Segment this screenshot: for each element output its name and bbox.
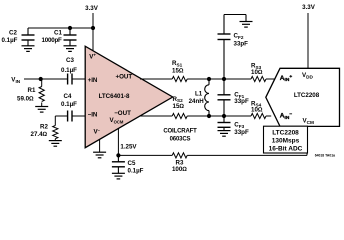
svg-text:C3: C3 (66, 57, 74, 64)
svg-text:3.3V: 3.3V (302, 4, 316, 11)
wire: VOCM pin down (117, 128, 119, 155)
svg-text:LTC6401-8: LTC6401-8 (99, 93, 130, 100)
svg-text:C4: C4 (64, 93, 72, 100)
svg-text:3.3V: 3.3V (85, 5, 99, 12)
svg-text:27.4Ω: 27.4Ω (31, 131, 48, 138)
ground under CF3 (218, 131, 231, 137)
svg-text:LTC2208: LTC2208 (272, 129, 299, 136)
svg-text:0.1µF: 0.1µF (61, 67, 77, 74)
ground under R2 (49, 141, 62, 147)
node: input junction (39, 77, 43, 81)
wire: V+ pin (92, 28, 94, 52)
wire: top supply rail (28, 27, 93, 29)
ground under R1 (35, 107, 48, 113)
capacitor C1 (64, 28, 77, 46)
svg-text:R2: R2 (40, 123, 48, 130)
svg-text:33pF: 33pF (234, 98, 249, 105)
svg-text:15Ω: 15Ω (173, 103, 185, 110)
resistor R1 (41, 79, 43, 87)
node: CF column top junction (222, 77, 226, 81)
node: VOCM/C5/R3 junction (116, 153, 120, 157)
svg-text:33pF: 33pF (234, 41, 249, 48)
resistor RS1 (172, 76, 187, 81)
svg-text:1.25V: 1.25V (120, 144, 137, 151)
wire: RS3 to AIN+ (266, 78, 275, 80)
svg-text:+OUT: +OUT (116, 74, 133, 81)
wire: RS4 to AIN- (266, 115, 271, 117)
svg-text:100Ω: 100Ω (172, 166, 187, 173)
svg-text:0.1µF: 0.1µF (61, 101, 77, 108)
resistor RS4 (251, 113, 266, 118)
svg-text:COILCRAFT: COILCRAFT (163, 129, 197, 135)
wire: 3.3V lead down to rail (92, 13, 94, 28)
resistor R2 (54, 116, 56, 126)
resistor RS2 (172, 113, 187, 118)
wire: +OUT to RS1 (140, 78, 172, 80)
resistor RS3 (251, 76, 266, 81)
capacitor CF3 (218, 116, 231, 131)
resistor R3 (172, 153, 187, 158)
capacitor C2 (22, 28, 35, 46)
svg-text:15Ω: 15Ω (172, 67, 184, 74)
node: L1 top junction (207, 77, 211, 81)
svg-text:R1: R1 (28, 87, 36, 94)
svg-text:0603CS: 0603CS (170, 137, 191, 143)
ground at V- (93, 152, 106, 158)
svg-text:24nH: 24nH (189, 98, 205, 105)
svg-text:−OUT: −OUT (114, 110, 131, 117)
svg-text:16-Bit ADC: 16-Bit ADC (269, 145, 303, 152)
capacitor C4 (68, 111, 72, 122)
svg-text:59.0Ω: 59.0Ω (17, 95, 34, 102)
capacitor CF1 (218, 79, 231, 116)
svg-text:C5: C5 (128, 160, 136, 167)
inductor L1 (205, 79, 209, 116)
wire: R3 to 1.25V node (118, 154, 172, 156)
svg-text:+IN: +IN (88, 77, 98, 84)
svg-text:−IN: −IN (88, 111, 98, 118)
ground under C5 (112, 173, 125, 179)
wire: VIN to C3 (24, 78, 68, 80)
wire: VCM pin down (306, 127, 308, 156)
ADC caption box (264, 126, 308, 153)
svg-text:10Ω: 10Ω (251, 107, 263, 114)
node: junction at V+ drop (91, 26, 95, 30)
ground under C1 (64, 46, 77, 52)
ground under C2 (22, 46, 35, 52)
svg-text:1000pF: 1000pF (42, 37, 63, 44)
capacitor C5 (112, 155, 125, 173)
svg-text:64018 TA01a: 64018 TA01a (315, 154, 335, 158)
op-amp U1 LTC6401-8 (85, 46, 173, 148)
wire: C3 to +IN (72, 78, 85, 80)
svg-text:C1: C1 (54, 30, 62, 37)
wire: RS1 to RS3 (187, 78, 251, 80)
node: CF column bottom junction (222, 114, 226, 118)
node: L1 bottom junction (207, 114, 211, 118)
svg-text:0.1µF: 0.1µF (128, 167, 144, 174)
wire: VDD lead (307, 13, 309, 68)
svg-text:33pF: 33pF (234, 129, 249, 136)
svg-text:L1: L1 (195, 90, 203, 97)
svg-text:LTC2208: LTC2208 (294, 92, 320, 99)
svg-text:0.1µF: 0.1µF (2, 37, 18, 44)
wire: -OUT to RS2 (139, 115, 172, 117)
wire: RS2 to RS4 (187, 115, 251, 117)
capacitor C3 (68, 74, 72, 85)
ground at CF2 (240, 22, 253, 28)
wire: V- pin to ground (99, 139, 101, 152)
svg-text:10Ω: 10Ω (251, 69, 263, 76)
svg-text:C2: C2 (9, 30, 17, 37)
ADC U2 LTC2208 (266, 68, 340, 126)
capacitor CF2 (218, 15, 247, 80)
svg-text:130Msps: 130Msps (272, 137, 300, 144)
node: junction at C1 top (68, 26, 72, 30)
wire: C4 to -IN (72, 115, 85, 117)
wire: R2 to C4 (55, 115, 67, 117)
wire: VCM to R3 (187, 154, 307, 156)
